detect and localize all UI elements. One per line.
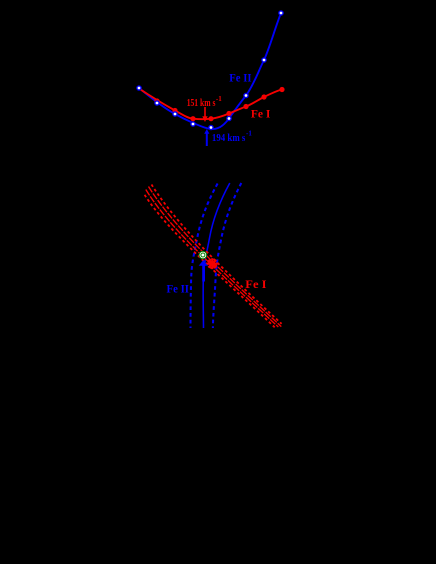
svg-text:-1: -1 <box>246 130 252 138</box>
top panel: Fe II cross-correlation curve (blue) <box>139 13 281 129</box>
bottom panel: Fe I locus solid pair (red) <box>149 187 282 327</box>
blue annotation arrow pointing up at Fe II minimum <box>204 129 209 146</box>
svg-text:151 km s: 151 km s <box>187 98 216 109</box>
svg-text:Fe II: Fe II <box>229 70 251 84</box>
svg-text:Fe I: Fe I <box>245 277 267 291</box>
red star marker at adopted solution <box>207 258 218 269</box>
svg-text:Fe I: Fe I <box>251 107 271 121</box>
bottom panel: Fe II locus right dashed (blue) <box>213 183 241 328</box>
bottom panel: Fe II locus left dashed (blue) <box>191 184 218 329</box>
blue data point markers (white-filled circles) <box>137 11 283 130</box>
svg-text:Fe II: Fe II <box>167 282 190 296</box>
red data point markers (filled circles) <box>154 87 284 121</box>
svg-text:194 km s: 194 km s <box>212 133 246 144</box>
svg-text:-1: -1 <box>216 95 222 103</box>
red annotation arrow pointing down at Fe I minimum <box>202 107 207 122</box>
blue arrow pointing up at intersection (bottom panel) <box>199 260 208 282</box>
bottom panel: Fe I lower dashed (red) <box>145 195 275 327</box>
top panel: Fe I cross-correlation curve (red) <box>139 89 282 120</box>
bottom panel: Fe II locus solid (blue) <box>203 183 230 328</box>
green circled-dot marker at intersection <box>199 251 207 259</box>
bottom panel: Fe I upper dashed (red) <box>152 185 282 324</box>
